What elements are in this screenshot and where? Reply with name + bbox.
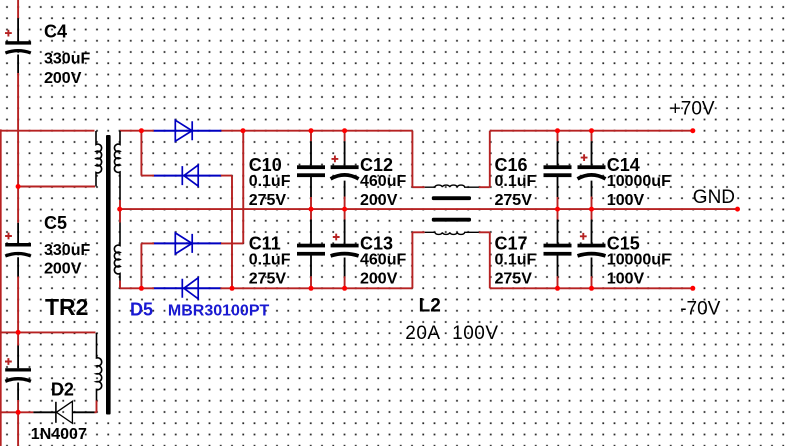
svg-text:460uF: 460uF [360, 252, 406, 269]
svg-text:C14: C14 [607, 155, 640, 175]
svg-text:C16: C16 [495, 155, 528, 175]
svg-text:GND: GND [693, 187, 735, 208]
svg-text:200V: 200V [44, 70, 82, 87]
svg-text:+70V: +70V [670, 99, 715, 120]
svg-text:200V: 200V [360, 270, 398, 287]
svg-text:L2: L2 [419, 295, 441, 316]
svg-text:275V: 275V [249, 270, 287, 287]
svg-text:200V: 200V [44, 261, 82, 278]
svg-text:C12: C12 [360, 155, 393, 175]
svg-text:330uF: 330uF [44, 242, 90, 259]
svg-text:0.1uF: 0.1uF [495, 173, 537, 190]
svg-text:275V: 275V [249, 192, 287, 209]
svg-text:100V: 100V [607, 192, 645, 209]
svg-text:10000uF: 10000uF [607, 252, 671, 269]
svg-text:MBR30100PT: MBR30100PT [168, 303, 270, 320]
svg-text:D2: D2 [51, 380, 74, 400]
svg-text:C5: C5 [44, 213, 67, 233]
svg-text:460uF: 460uF [360, 173, 406, 190]
svg-text:C10: C10 [249, 155, 282, 175]
svg-text:0.1uF: 0.1uF [495, 252, 537, 269]
svg-text:330uF: 330uF [44, 51, 90, 68]
svg-text:D5: D5 [130, 300, 153, 320]
svg-text:TR2: TR2 [45, 294, 88, 320]
svg-text:275V: 275V [495, 192, 533, 209]
svg-text:275V: 275V [495, 270, 533, 287]
svg-text:1N4007: 1N4007 [31, 426, 87, 443]
svg-text:200V: 200V [360, 192, 398, 209]
svg-text:10000uF: 10000uF [607, 173, 671, 190]
svg-text:-70V: -70V [680, 299, 720, 320]
svg-text:0.1uF: 0.1uF [249, 252, 291, 269]
svg-text:20A 100V: 20A 100V [405, 323, 498, 344]
svg-text:C4: C4 [44, 21, 67, 41]
svg-text:100V: 100V [607, 270, 645, 287]
svg-text:0.1uF: 0.1uF [249, 173, 291, 190]
